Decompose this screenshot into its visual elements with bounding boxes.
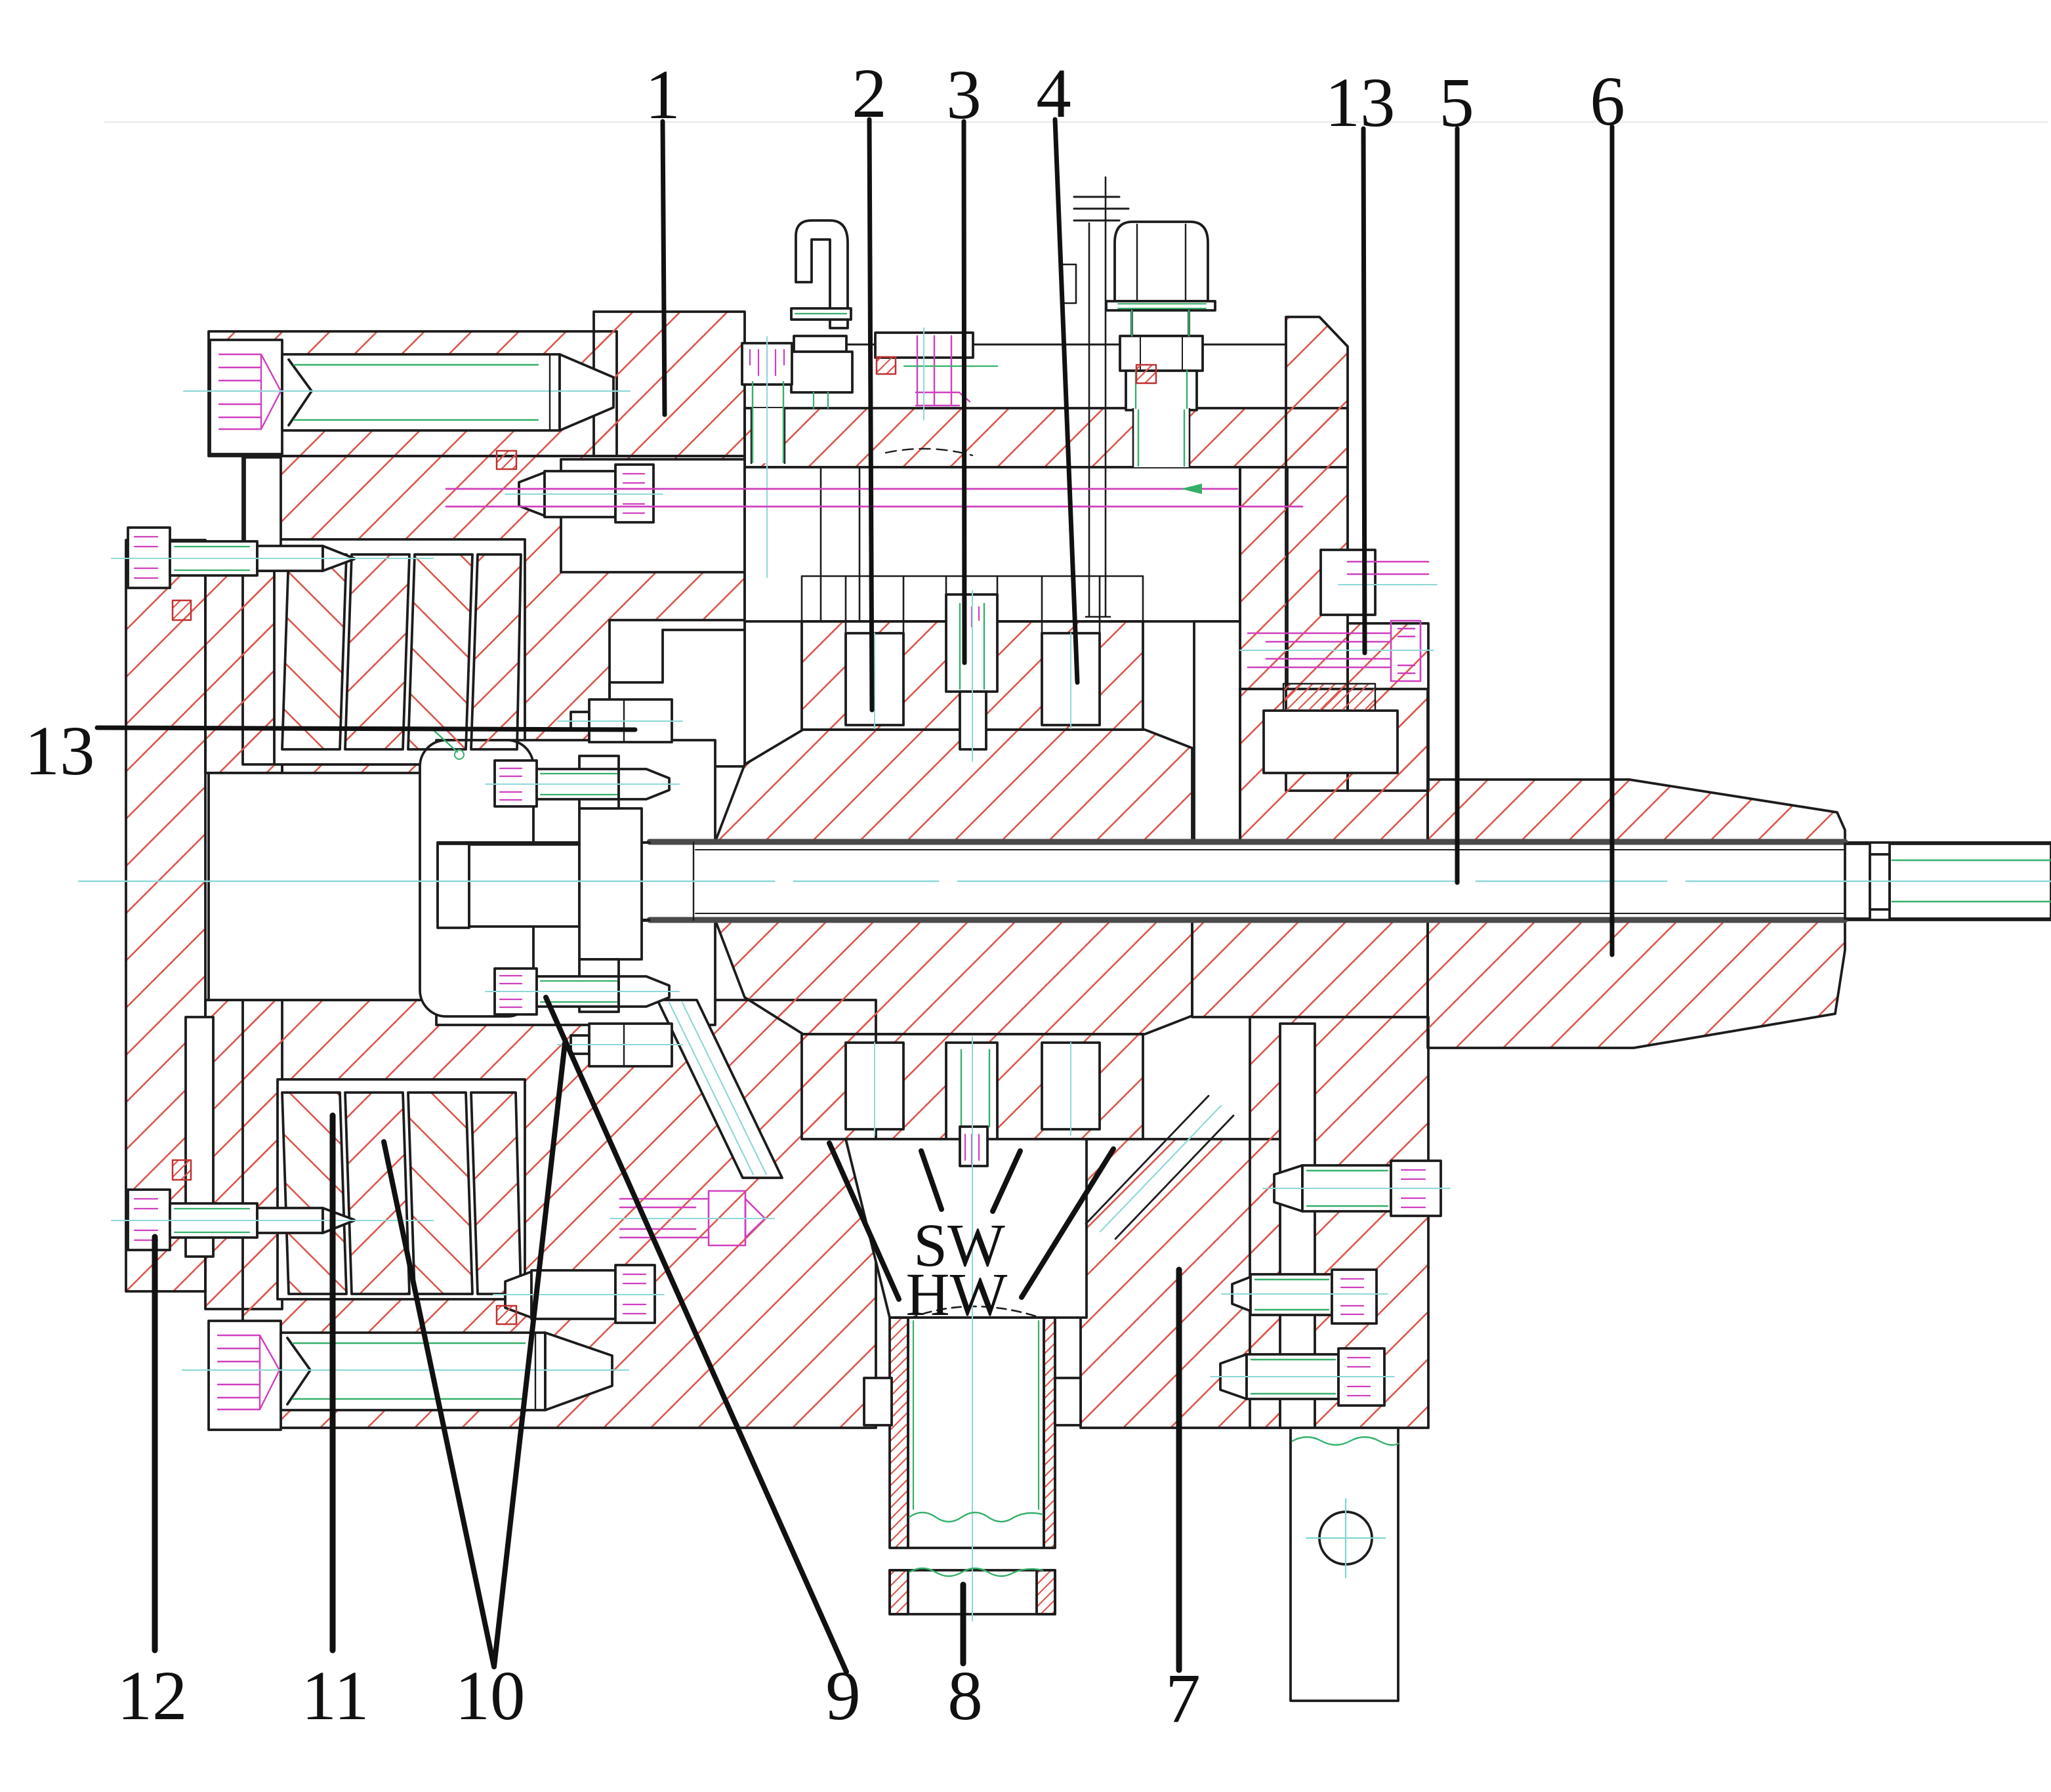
svg-text:HW: HW [906, 1261, 1008, 1329]
bearing nut box upper right [1321, 550, 1375, 615]
set screw left lower [112, 1190, 433, 1250]
coupling bolt upper pointing right [486, 761, 679, 806]
leader SW right [993, 1151, 1020, 1211]
drum column upper [205, 571, 282, 773]
pipe flange tab right (white) [1055, 1378, 1081, 1425]
set screw left upper [112, 528, 433, 588]
pipe flange tab left (white) [864, 1378, 892, 1425]
hex bolt stack top : fine shims [1074, 197, 1129, 220]
upper hub web [715, 730, 1192, 842]
leader 4 [1055, 119, 1077, 682]
shaft end step [1845, 844, 1870, 919]
housing 11 : lower-left main block [243, 1000, 876, 1428]
leader HW right [1022, 1149, 1113, 1297]
dense seal strip above nut [1283, 684, 1375, 711]
leader SW left [921, 1151, 942, 1209]
upper gear bolt slot (white) [946, 594, 997, 692]
long cap screw lower-left [182, 1321, 629, 1430]
lower gear tooth white 2 [1042, 1043, 1100, 1129]
plug screw at leader 13 [558, 699, 682, 742]
disc spring stack upper 4 [471, 554, 521, 749]
leader 1 [663, 121, 665, 415]
bolt pocket white lower [436, 921, 715, 1025]
disc spring stack upper 1 [282, 554, 346, 749]
bearing seat steps upper [610, 630, 745, 766]
svg-text:7: 7 [1165, 1660, 1201, 1738]
leader 7 [1176, 1270, 1182, 1670]
bolt pocket white upper [436, 740, 715, 843]
housing top profile line [745, 344, 1286, 346]
shaft inner line bottom [695, 913, 1844, 914]
flange plate 12 [126, 540, 205, 1291]
band below shaft left [282, 921, 459, 1000]
white gap above gear cover joint [561, 459, 745, 572]
disc spring stack upper 3 [408, 554, 472, 749]
funnel cavity SW HW (white) [846, 1139, 1087, 1318]
lower gear bolt slot (white) [946, 1043, 997, 1148]
bearing cup white rounded [420, 740, 533, 1016]
disc spring stack lower 4 [471, 1093, 521, 1294]
leader 12 [152, 1237, 158, 1650]
leader 6 [1610, 127, 1615, 955]
grub screw mid upper pointing left [505, 465, 663, 522]
lower gear tooth white 1 [846, 1043, 903, 1129]
lower hub web [715, 920, 1192, 1034]
leader 8 [961, 1585, 966, 1663]
pipe lower collar hatch left [890, 1570, 908, 1614]
bearing seat white pocket upper [610, 620, 745, 766]
svg-text:8: 8 [947, 1657, 983, 1735]
green pin marker in pocket [433, 730, 457, 752]
coupling block (white) [469, 844, 579, 927]
white strip lower right separation [1280, 1024, 1315, 1428]
vertical bolt top-center : head [742, 337, 792, 577]
leader HW left [829, 1143, 899, 1299]
right flange bolt 1 pointing left [1263, 1161, 1450, 1216]
pipe lower collar (white) [890, 1570, 1055, 1614]
cone lower half [1428, 920, 1845, 1048]
faint top reference line [105, 121, 2047, 123]
housing 1 : raised top lip [594, 312, 745, 456]
leader 10 right branch [494, 1043, 565, 1667]
foot bracket hole [1319, 1512, 1372, 1564]
magenta bearing screw right [1240, 562, 1437, 681]
svg-text:12: 12 [117, 1657, 188, 1735]
hook lever on top [791, 220, 852, 408]
svg-text:2: 2 [852, 55, 887, 133]
leader 9 [546, 997, 846, 1672]
gear housing top band [745, 408, 1348, 467]
cyan gear centerlines [875, 633, 1071, 1135]
shaft step line [693, 843, 694, 920]
bearing lock nut upper right (white) [1264, 711, 1398, 773]
gear housing right wall [1286, 317, 1348, 791]
foot bracket (white) [1291, 1428, 1398, 1701]
housing 1 : upper-left main block [243, 456, 745, 764]
funnel dome arc [908, 1306, 1044, 1319]
shaft end neck [1870, 854, 1890, 909]
disc spring stack upper 2 [345, 554, 409, 749]
leader 13 right [1363, 129, 1365, 653]
gear rim verticals in chamber [821, 467, 860, 621]
green wavy break line foot [1293, 1437, 1398, 1445]
seal square 5 [877, 357, 896, 374]
white slot under cap [245, 457, 281, 570]
gear housing right wall lower step [1348, 623, 1428, 791]
leader 13 left [97, 728, 635, 730]
svg-text:5: 5 [1439, 64, 1474, 142]
right flange bolt 3 pointing left [1211, 1348, 1394, 1406]
shaft bottom edge thick [650, 917, 1845, 923]
seal square 3 [173, 1160, 191, 1180]
right flange bolt 2 pointing left [1222, 1270, 1388, 1323]
shaft 5 body (white) [438, 843, 2051, 920]
band below shaft right [1192, 921, 1428, 1017]
magenta screw lower-mid pointing right [610, 1191, 774, 1245]
disc spring stack lower 2 [345, 1093, 409, 1294]
oil channel cyan lines [669, 1003, 766, 1175]
leader 10 left branch [384, 1142, 494, 1667]
svg-text:4: 4 [1036, 55, 1071, 133]
shaft left portion outline [438, 843, 650, 920]
shaft left stub (white) [438, 844, 469, 928]
spring pocket lower (white) [278, 1079, 525, 1299]
spring pocket upper (white) [274, 539, 525, 764]
svg-text:1: 1 [645, 56, 680, 134]
rim hatch right of chamber [1240, 467, 1287, 689]
shaft inner line top [695, 849, 1844, 850]
plug screw lower mirror [558, 1024, 682, 1066]
coupling hub column (white) [579, 808, 642, 959]
upper gear tooth white 1 [846, 633, 903, 725]
central cavity (white) [209, 773, 436, 1000]
white strip right of gear [1194, 621, 1240, 842]
foot hole crosshair [1306, 1499, 1385, 1577]
pipe wall right hatched [1044, 1318, 1055, 1548]
leader 2 [869, 119, 872, 710]
coupling hub flange upper [579, 756, 619, 808]
gear rim top line [802, 576, 1143, 633]
gear clamp bolt upper vertical [960, 591, 986, 761]
green wavy break line pipe [909, 1512, 1043, 1522]
leader 3 [964, 121, 964, 663]
upper gear teeth band base [802, 621, 1143, 730]
shaft end rod green lines [1892, 860, 2051, 902]
hex bolt stack : thin mast [1086, 177, 1110, 617]
svg-text:10: 10 [455, 1657, 526, 1735]
disc spring stack lower 3 [408, 1093, 472, 1294]
magenta double oil line [446, 489, 1302, 507]
oil duct diagonal lower right [1086, 1096, 1233, 1239]
seal square 2 [497, 451, 516, 469]
band above shaft left [282, 764, 459, 842]
coupling hub flange lower [579, 959, 619, 1012]
svg-text:13: 13 [25, 713, 95, 790]
disc spring stack lower 1 [282, 1093, 346, 1294]
oil line arrow [1181, 484, 1202, 494]
white gap flange-drum lower [186, 1017, 213, 1257]
gear top dashed arc [886, 449, 972, 455]
green wavy break line collar [909, 1568, 1043, 1576]
shaft top edge thick [650, 839, 1845, 845]
pipe bore green lines [913, 1321, 1039, 1509]
lower gear teeth band base [802, 1034, 1143, 1139]
horizontal screw on gear cover [875, 328, 997, 420]
upper right bearing rim [1240, 689, 1428, 842]
pipe wall left hatched [890, 1318, 908, 1548]
gear chamber upper (white) [745, 467, 1240, 621]
svg-text:3: 3 [946, 56, 982, 134]
right block below shaft [1081, 1139, 1286, 1428]
shaft end rod [1890, 844, 2051, 919]
hex nut assembly top [1106, 222, 1215, 410]
svg-text:13: 13 [1325, 64, 1396, 142]
seal square 4 [497, 1306, 516, 1324]
long cap screw upper-left : head [184, 340, 630, 454]
seal square 6 [1136, 365, 1156, 383]
svg-text:11: 11 [301, 1657, 369, 1735]
leader 5 [1455, 129, 1460, 883]
svg-text:6: 6 [1590, 63, 1625, 140]
bolt hole slot below hex nut [1133, 409, 1190, 467]
axis centerline [79, 881, 2051, 883]
upper gear tooth white 2 [1042, 633, 1100, 725]
drum column lower [205, 1000, 282, 1309]
pipe lower collar hatch right [1037, 1570, 1055, 1614]
svg-text:9: 9 [825, 1657, 861, 1735]
leader 11 [330, 1115, 336, 1650]
grub screw lower-mid pointing left [493, 1265, 664, 1323]
coupling bolt lower pointing right [486, 969, 679, 1014]
cone upper half [1428, 780, 1845, 843]
gear clamp bolt lower vertical [960, 1037, 989, 1621]
oil pipe bore (white) [908, 1318, 1044, 1548]
right stepped flange lower [1250, 1017, 1428, 1428]
housing 1 : upper-left cap block [209, 331, 617, 456]
seal square 1 [173, 600, 191, 620]
oil channel white diagonal lower-left [657, 1000, 782, 1178]
